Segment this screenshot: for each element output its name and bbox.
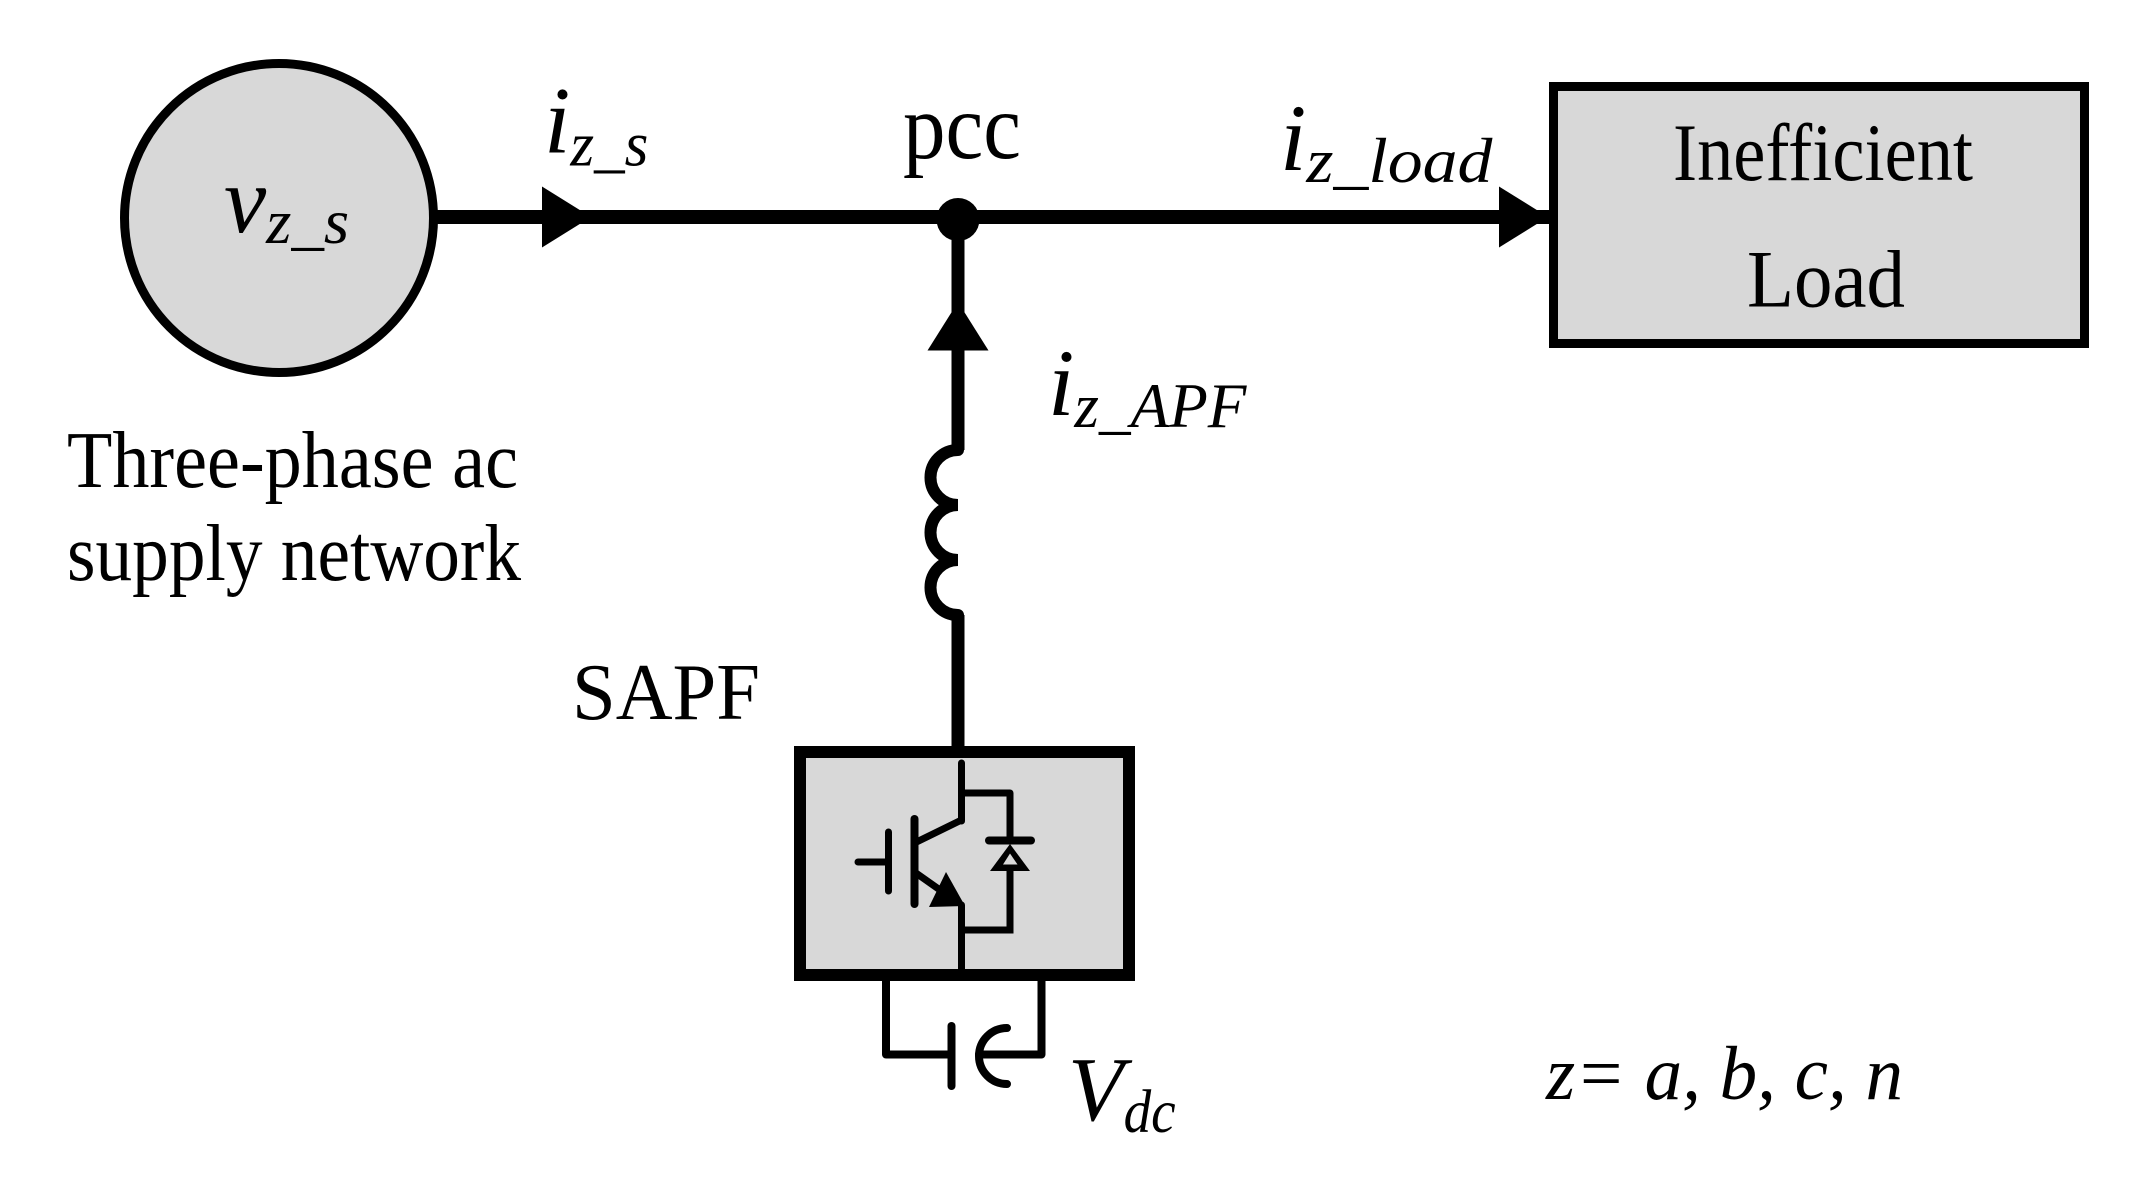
IGBT collector diagonal	[915, 820, 962, 843]
wire to diode branch (top)	[962, 793, 1011, 837]
wire: pcc down to inductor	[952, 219, 965, 450]
svg-text:z= a, b, c, n: z= a, b, c, n	[1545, 1032, 1903, 1116]
SAPF converter box	[800, 752, 1129, 975]
capacitor flat plate	[948, 1026, 956, 1086]
diode triangle	[990, 844, 1030, 871]
IGBT emitter diagonal with arrow	[915, 872, 941, 890]
three-phase ac source circle	[125, 64, 434, 373]
capacitor curved plate	[979, 1028, 1007, 1084]
dc-link wire left	[886, 975, 948, 1055]
load box	[1554, 87, 2085, 344]
arrow i_z_APF (pointing up)	[928, 302, 989, 351]
svg-text:Three-phase ac: Three-phase ac	[67, 417, 518, 505]
IGBT gate plate	[885, 832, 892, 891]
svg-text:Load: Load	[1747, 234, 1905, 325]
diode anode wire down and to emitter	[962, 869, 1011, 930]
node pcc (junction dot)	[937, 198, 980, 241]
svg-text:supply network: supply network	[67, 510, 521, 598]
svg-text:SAPF: SAPF	[572, 649, 760, 737]
IGBT collector stub	[958, 763, 965, 821]
diode cathode bar	[989, 837, 1031, 845]
wire: source to load box (through pcc)	[434, 210, 1549, 224]
svg-text:pcc: pcc	[903, 76, 1021, 179]
svg-text:Inefficient: Inefficient	[1673, 107, 1973, 198]
wire: inductor to SAPF box	[952, 615, 965, 752]
inductor coil (3 arcs)	[930, 450, 958, 615]
IGBT gate lead	[858, 859, 886, 866]
arrow i_z_load into load box	[1499, 187, 1548, 248]
IGBT emitter vertical	[958, 905, 965, 972]
dc-link wire right	[979, 975, 1042, 1055]
arrow i_z_s on source wire	[542, 187, 591, 248]
IGBT body bar	[911, 819, 919, 904]
